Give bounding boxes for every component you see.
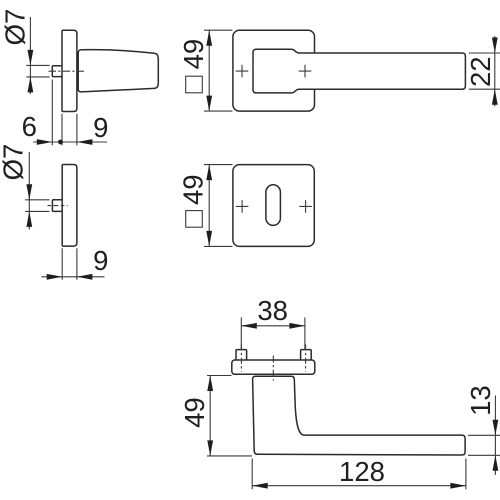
- svg-text:9: 9: [93, 245, 108, 276]
- svg-text:Ø7: Ø7: [0, 144, 29, 181]
- svg-text:38: 38: [257, 295, 288, 326]
- svg-text:6: 6: [22, 111, 37, 142]
- svg-text:22: 22: [465, 56, 496, 87]
- svg-text:13: 13: [465, 385, 496, 416]
- svg-text:49: 49: [179, 397, 210, 428]
- svg-text:128: 128: [339, 456, 385, 487]
- svg-text:9: 9: [93, 112, 108, 143]
- svg-text:Ø7: Ø7: [0, 9, 31, 46]
- svg-text:49: 49: [178, 174, 209, 205]
- svg-text:49: 49: [178, 39, 209, 70]
